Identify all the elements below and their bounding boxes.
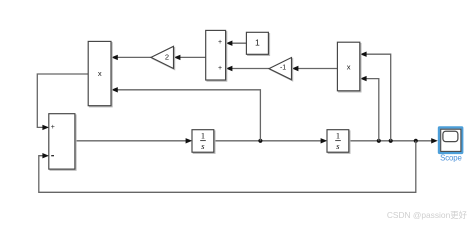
svg-text:1: 1 (336, 130, 340, 140)
svg-text:2: 2 (165, 53, 169, 62)
junction dot at branch to P2 lower input (377, 139, 381, 143)
wire: integrator I2 output to scope (349, 138, 438, 143)
constant block value 1 (246, 32, 269, 55)
sum S1 (two + inputs on right) (206, 30, 227, 81)
svg-text:1: 1 (255, 38, 260, 48)
sum S2 (inputs + and - on left) (49, 114, 76, 171)
svg-text:x: x (347, 62, 351, 71)
wire: branch from I1 output up and left to product P1 lower input (111, 87, 260, 141)
gain G2 value 2 (triangle pointing left) (151, 46, 175, 69)
junction dot on I1-I2 wire (258, 139, 262, 143)
integrator I2 (1/s) (327, 130, 350, 154)
wire: product P1 output left, down, to sum S2 plus input (37, 74, 88, 130)
svg-text:-1: -1 (280, 65, 286, 72)
wire: branch up to product P2 lower input (360, 76, 379, 141)
product P1 (left, label x) (88, 41, 112, 107)
wire: branch up to product P2 upper input (360, 52, 391, 141)
svg-text:+: + (218, 65, 222, 72)
svg-text:CSDN @passion更好: CSDN @passion更好 (387, 210, 468, 220)
svg-text:+: + (51, 124, 55, 131)
wire: gain G2 output to product P1 upper input (111, 55, 151, 60)
junction dot at branch to P2 upper input (389, 139, 393, 143)
wire: feedback from scope line down, along bottom, up to sum S2 minus input (39, 141, 416, 193)
integrator I1 (1/s) (192, 130, 215, 154)
svg-text:Scope: Scope (440, 153, 462, 162)
wire: product P2 output to gain G3 input (292, 66, 338, 71)
wire: sum S2 output to integrator I1 (75, 138, 192, 143)
svg-text:s: s (201, 141, 205, 151)
wire: constant 1 to sum S1 upper input (226, 41, 247, 46)
svg-text:x: x (98, 69, 102, 78)
junction dot at feedback branch (414, 139, 418, 143)
wire: sum S1 output to gain G2 input (174, 55, 206, 60)
gain G3 value -1 (triangle pointing left) (269, 58, 293, 81)
svg-text:+: + (218, 39, 222, 46)
svg-text:1: 1 (201, 130, 205, 140)
scope block (selected, blue frame) (439, 128, 462, 163)
wire: integrator I1 output to integrator I2 (214, 138, 327, 143)
product P2 (right, label x) (337, 42, 361, 92)
svg-text:s: s (336, 141, 340, 151)
wire: gain G3 output to sum S1 lower input (226, 66, 269, 71)
